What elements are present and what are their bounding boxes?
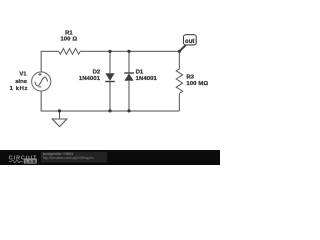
junction dot bottom D1 [127, 109, 130, 112]
svg-text:1 kHz: 1 kHz [10, 86, 29, 92]
resistor R1 [59, 49, 80, 55]
svg-text:100 MΩ: 100 MΩ [186, 81, 208, 87]
svg-text:100 Ω: 100 Ω [60, 36, 77, 42]
svg-text:out: out [185, 39, 194, 45]
junction dot ground [58, 109, 61, 112]
wire right column bottom [178, 93, 180, 111]
diode D2 [105, 73, 115, 82]
watermark logo zigzag [9, 160, 23, 163]
junction dot out node [178, 50, 181, 53]
wire V1 top lead and top-left corner [41, 51, 59, 72]
svg-text:LAB: LAB [25, 159, 36, 164]
diode D1 [124, 72, 134, 81]
ground [52, 111, 67, 127]
wire D2 top lead [109, 51, 111, 73]
watermark bar [0, 150, 220, 165]
svg-text:1N4001: 1N4001 [136, 76, 158, 82]
svg-text:sine: sine [15, 79, 28, 85]
junction dot bottom D2 [108, 109, 111, 112]
watermark logo LAB [24, 158, 37, 163]
wire D1 bottom lead [128, 81, 130, 111]
junction dot top D1 [127, 50, 130, 53]
svg-text:D1: D1 [136, 69, 144, 75]
svg-text:R3: R3 [186, 75, 194, 81]
watermark info box [41, 152, 107, 163]
wire right column top [178, 51, 180, 68]
junction dot top D2 [108, 50, 111, 53]
wire V1 bottom lead [41, 91, 179, 111]
resistor R3 [176, 69, 182, 93]
node out flag [180, 35, 197, 52]
svg-text:V1: V1 [19, 72, 27, 78]
voltage source V1 [32, 72, 51, 91]
svg-text:1N4001: 1N4001 [79, 76, 101, 82]
wire D2 bottom lead [109, 82, 111, 112]
wire top rail from R1 to out node [80, 50, 179, 52]
wire D1 top lead [128, 51, 130, 73]
svg-text:D2: D2 [93, 70, 101, 76]
svg-text:http://circuitlab.com/cpq2939i: http://circuitlab.com/cpq2939iwqp5u [43, 156, 94, 160]
